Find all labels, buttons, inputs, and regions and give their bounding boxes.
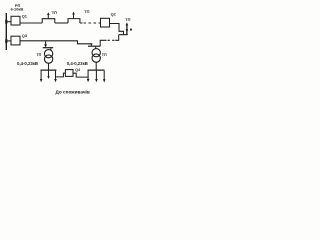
wire bus to Q1 <box>7 21 11 23</box>
LV bus left <box>40 69 56 71</box>
svg-text:6-10кВ: 6-10кВ <box>11 7 24 12</box>
drop to left ТП with arrow <box>45 41 47 45</box>
junction Q3 stub <box>5 39 7 43</box>
svg-text:ТП: ТП <box>36 53 41 57</box>
bus tie wire left <box>56 73 66 77</box>
svg-text:ТП: ТП <box>52 10 57 15</box>
svg-text:Q3: Q3 <box>22 33 28 38</box>
breaker Q1 <box>11 16 20 25</box>
wire between taps <box>55 22 68 24</box>
wire Q3 feeder <box>20 41 91 44</box>
bus tie wire right <box>73 73 88 77</box>
junction dot <box>126 29 128 31</box>
wire reserve dashed section <box>80 22 83 24</box>
svg-text:ТП: ТП <box>125 17 130 22</box>
svg-text:Q1: Q1 <box>22 13 28 18</box>
left ТП HV bar <box>43 47 54 49</box>
junction Q1 stub <box>5 20 7 24</box>
consumer arrow L2 <box>48 71 50 77</box>
drop to right ТП with arrow <box>90 43 92 45</box>
svg-text:0,4-0,23кВ: 0,4-0,23кВ <box>67 61 88 66</box>
svg-text:0,4-0,23кВ: 0,4-0,23кВ <box>17 61 38 66</box>
svg-text:До споживачів: До споживачів <box>56 89 90 94</box>
wire Q2 staircase to node <box>110 24 128 36</box>
arrow to other consumers (small blob) <box>130 29 132 31</box>
wire reserve path down to right ТП <box>115 35 119 41</box>
right ТП HV bar <box>88 45 100 47</box>
LV bus right <box>88 69 105 71</box>
breaker Q2 <box>101 18 110 27</box>
transformer T2 right ТП <box>95 47 97 49</box>
bus tie breaker Q4 <box>65 70 73 77</box>
consumer arrow L3 <box>55 71 57 80</box>
wire bus to Q3 <box>7 40 11 42</box>
svg-text:Q2: Q2 <box>111 12 117 17</box>
РП busbar 6-10кВ <box>5 13 7 50</box>
svg-text:ТП: ТП <box>84 9 89 14</box>
wire Q1 feeder <box>20 22 42 24</box>
tap 2 to ТП (loop-in bridge with up arrow) <box>68 13 80 23</box>
breaker Q3 <box>11 36 20 45</box>
consumer arrow R1 <box>87 71 89 80</box>
transformer T1 left ТП <box>50 48 52 50</box>
consumer arrow R3 <box>103 71 105 80</box>
tap 1 to ТП (loop-in bridge with up arrow) <box>42 13 55 23</box>
consumer arrow R2 <box>95 71 97 80</box>
feeder to other ТП (vertical with arrow up) <box>126 25 128 35</box>
svg-text:ТП: ТП <box>102 53 107 57</box>
consumer arrow L1 <box>40 71 42 80</box>
